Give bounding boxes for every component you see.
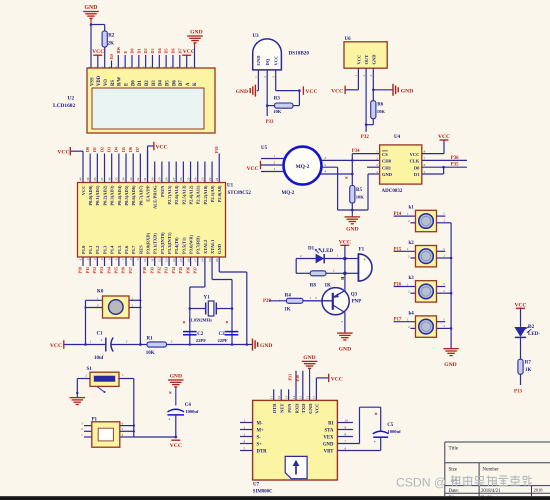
svg-text:33: 33	[129, 177, 133, 181]
svg-text:4: 4	[244, 440, 246, 444]
svg-text:PNP: PNP	[352, 299, 362, 304]
svg-text:P16: P16	[121, 267, 126, 273]
svg-text:5: 5	[107, 258, 111, 260]
svg-text:P30: P30	[142, 267, 147, 273]
svg-text:NET: NET	[280, 404, 285, 413]
svg-text:P2.3(A11): P2.3(A11)	[196, 185, 201, 204]
svg-text:k3: k3	[409, 276, 415, 281]
ground S1	[70, 397, 86, 399]
svg-text:P36: P36	[451, 156, 459, 161]
svg-text:P3.1(TXD): P3.1(TXD)	[153, 233, 158, 254]
svg-text:10uf: 10uf	[94, 356, 104, 361]
svg-text:8: 8	[345, 433, 347, 437]
svg-text:R1: R1	[147, 337, 154, 342]
svg-text:D4: D4	[157, 48, 162, 53]
svg-text:VCC: VCC	[170, 443, 182, 449]
svg-text:3: 3	[93, 258, 97, 260]
svg-text:STC89C52: STC89C52	[228, 191, 252, 196]
svg-text:XTAL2: XTAL2	[203, 239, 208, 254]
svg-text:13: 13	[299, 395, 303, 399]
wire P1 to C4	[134, 436, 176, 438]
svg-text:P0.3(AD3): P0.3(AD3)	[110, 185, 115, 206]
svg-text:P0.0(AD0): P0.0(AD0)	[88, 185, 93, 206]
svg-text:VCC: VCC	[57, 150, 69, 156]
svg-text:VDD: VDD	[97, 75, 102, 86]
svg-text:P2.7(A15): P2.7(A15)	[167, 185, 172, 205]
svg-text:VCC: VCC	[92, 49, 104, 55]
svg-text:EA/VPP: EA/VPP	[145, 185, 150, 202]
svg-text:D1: D1	[92, 147, 97, 152]
svg-text:DQ: DQ	[265, 58, 270, 65]
svg-text:U7: U7	[253, 483, 260, 488]
svg-text:P1.5: P1.5	[117, 245, 122, 254]
svg-text:3: 3	[81, 422, 83, 426]
svg-text:VCC: VCC	[339, 240, 351, 246]
svg-text:C1: C1	[97, 332, 104, 337]
svg-text:U2: U2	[68, 96, 75, 102]
svg-text:P12: P12	[92, 267, 97, 273]
svg-text:1K: 1K	[284, 308, 291, 313]
resistor R6	[371, 101, 376, 119]
svg-text:VCC: VCC	[410, 152, 420, 157]
svg-text:35: 35	[115, 177, 119, 181]
svg-text:VCC: VCC	[274, 56, 279, 66]
svg-text:U5: U5	[261, 146, 268, 151]
svg-text:P3.3(INT1): P3.3(INT1)	[167, 232, 172, 254]
wire to Q3	[344, 273, 346, 290]
svg-text:D6: D6	[172, 80, 177, 86]
svg-text:P33: P33	[266, 120, 275, 125]
svg-text:U4: U4	[394, 135, 401, 140]
svg-text:11: 11	[312, 396, 316, 399]
svg-text:D5: D5	[121, 147, 126, 152]
svg-text:P31: P31	[149, 267, 154, 273]
ground U3	[257, 90, 259, 92]
svg-text:34: 34	[122, 177, 126, 181]
svg-text:GND: GND	[85, 5, 98, 11]
svg-text:VCC: VCC	[183, 49, 195, 55]
svg-text:28: 28	[165, 177, 169, 181]
svg-text:11.0592MHz: 11.0592MHz	[189, 318, 213, 323]
svg-text:P34: P34	[171, 267, 176, 273]
svg-text:39: 39	[86, 177, 90, 181]
svg-text:P2.6(A14): P2.6(A14)	[174, 185, 179, 205]
svg-text:D4: D4	[159, 80, 164, 86]
svg-text:GND: GND	[401, 88, 413, 94]
U6 pins	[357, 68, 359, 90]
svg-text:RES: RES	[138, 245, 143, 254]
svg-text:17: 17	[193, 258, 197, 262]
svg-text:P0.2(AD2): P0.2(AD2)	[102, 185, 107, 206]
svg-text:MQ-2: MQ-2	[282, 191, 295, 196]
svg-text:P0.4(AD4): P0.4(AD4)	[117, 185, 122, 206]
wire D0 P35	[422, 166, 467, 168]
svg-text:GND: GND	[323, 442, 334, 447]
svg-text:37: 37	[100, 177, 104, 181]
wire CH1 stub	[367, 166, 380, 168]
svg-text:OUT: OUT	[364, 55, 369, 65]
svg-text:VCC: VCC	[356, 55, 361, 65]
svg-text:CS: CS	[382, 152, 388, 157]
svg-text:P1.1: P1.1	[88, 245, 93, 254]
svg-text:P3.2(INT0): P3.2(INT0)	[160, 232, 165, 254]
svg-text:P14: P14	[106, 267, 111, 273]
svg-text:P1.3: P1.3	[102, 245, 107, 254]
svg-text:12: 12	[305, 395, 309, 399]
svg-text:VCC: VCC	[315, 404, 320, 414]
svg-text:P32: P32	[157, 267, 162, 273]
wire button bus	[450, 223, 452, 349]
svg-text:12: 12	[158, 258, 162, 262]
svg-text:22: 22	[208, 177, 212, 181]
svg-text:k1: k1	[409, 206, 415, 211]
svg-text:P13: P13	[514, 390, 523, 395]
U7 left pins 1-5	[240, 422, 253, 424]
svg-text:RXD: RXD	[294, 403, 299, 414]
svg-text:E: E	[123, 51, 128, 54]
svg-text:10K: 10K	[146, 351, 155, 356]
svg-text:P1.6: P1.6	[124, 245, 129, 254]
svg-text:D2: D2	[143, 48, 148, 53]
svg-text:8: 8	[129, 258, 133, 260]
svg-text:6: 6	[122, 422, 124, 426]
svg-text:P3.5(T1): P3.5(T1)	[181, 237, 186, 254]
svg-text:D3: D3	[152, 80, 157, 86]
svg-text:38: 38	[93, 177, 97, 181]
svg-text:U3: U3	[253, 34, 260, 39]
wire D1	[422, 173, 444, 175]
wire U7 vbt to C5	[380, 438, 382, 451]
svg-text:P11: P11	[85, 267, 90, 273]
svg-text:P20: P20	[214, 146, 219, 153]
svg-text:DS18B20: DS18B20	[289, 51, 310, 57]
svg-text:GND: GND	[339, 347, 351, 353]
wire U3 vcc	[276, 90, 300, 92]
svg-text:PEN: PEN	[287, 403, 292, 413]
svg-text:GND: GND	[190, 30, 202, 36]
svg-text:P31: P31	[288, 374, 293, 381]
svg-text:5: 5	[122, 427, 124, 431]
svg-text:2: 2	[126, 340, 128, 344]
LCD module U2 body	[87, 68, 215, 133]
svg-text:D0: D0	[130, 48, 135, 53]
svg-text:14: 14	[292, 395, 296, 399]
svg-text:7: 7	[122, 258, 126, 260]
svg-text:P32: P32	[361, 135, 370, 140]
svg-text:R7: R7	[525, 361, 532, 366]
svg-text:6: 6	[345, 447, 347, 451]
svg-text:16: 16	[186, 258, 190, 262]
svg-text:P1.0: P1.0	[81, 245, 86, 254]
svg-text:D2: D2	[145, 80, 150, 86]
svg-text:P15: P15	[114, 267, 119, 273]
U3 pins	[257, 70, 259, 91]
wire CS P34	[351, 154, 353, 161]
svg-text:1K: 1K	[525, 368, 532, 373]
svg-text:P34: P34	[352, 149, 360, 154]
capacitor C2	[183, 331, 197, 333]
power VCC MCU pin31	[153, 142, 155, 150]
svg-text:D2: D2	[528, 325, 535, 330]
svg-text:Y1: Y1	[204, 296, 211, 301]
svg-text:10K: 10K	[356, 195, 365, 200]
svg-text:K: K	[193, 82, 198, 86]
sim card symbol	[285, 456, 307, 478]
svg-text:GND: GND	[170, 374, 182, 380]
power VCC U5	[260, 161, 262, 169]
svg-text:2018: 2018	[534, 488, 544, 493]
svg-text:P10: P10	[78, 267, 83, 273]
svg-text:CH1: CH1	[382, 165, 392, 170]
svg-text:k2: k2	[409, 241, 415, 246]
svg-text:R8: R8	[310, 284, 317, 289]
svg-text:P35: P35	[178, 267, 183, 273]
svg-text:P0.6(AD6): P0.6(AD6)	[131, 185, 136, 206]
svg-text:Number: Number	[482, 468, 499, 473]
wire ADC gnd	[368, 173, 380, 175]
svg-text:P2.1(A9): P2.1(A9)	[210, 185, 215, 202]
svg-text:D7: D7	[135, 147, 140, 152]
svg-text:1: 1	[81, 433, 83, 437]
junction	[84, 343, 87, 346]
resistor R7	[518, 359, 523, 374]
svg-text:VCC: VCC	[81, 186, 86, 196]
svg-text:2: 2	[171, 340, 173, 344]
svg-text:6: 6	[115, 258, 119, 260]
svg-text:GND: GND	[260, 343, 272, 349]
wire pin5 down	[337, 167, 339, 210]
svg-text:S1: S1	[87, 367, 93, 372]
svg-text:GND: GND	[372, 54, 377, 65]
svg-text:15: 15	[284, 395, 288, 399]
svg-text:1: 1	[244, 419, 246, 423]
svg-text:LED: LED	[323, 249, 334, 254]
svg-text:36: 36	[107, 177, 111, 181]
svg-text:C5: C5	[387, 423, 394, 428]
svg-text:R3: R3	[274, 97, 281, 102]
svg-text:k4: k4	[409, 311, 415, 316]
svg-text:ADC0832: ADC0832	[382, 189, 403, 194]
svg-text:D2: D2	[99, 147, 104, 152]
svg-text:21: 21	[215, 177, 219, 181]
wire XTAL2 pin18	[204, 257, 206, 287]
svg-text:R/W: R/W	[118, 76, 123, 86]
svg-text:5: 5	[244, 447, 246, 451]
svg-text:Title: Title	[449, 446, 459, 452]
svg-text:CH0: CH0	[382, 159, 392, 164]
svg-text:D3: D3	[106, 147, 111, 152]
svg-text:D5: D5	[165, 80, 170, 86]
svg-text:LED-: LED-	[528, 332, 540, 337]
svg-text:22PF: 22PF	[218, 338, 228, 343]
junction RES node	[139, 343, 142, 346]
svg-text:1: 1	[90, 340, 92, 344]
svg-text:P1.4: P1.4	[110, 245, 115, 254]
svg-text:29: 29	[158, 177, 162, 181]
svg-text:4: 4	[100, 258, 104, 260]
svg-text:VCC: VCC	[331, 88, 343, 94]
bottom bar	[0, 496, 550, 500]
svg-text:R2: R2	[108, 34, 115, 39]
svg-text:GND: GND	[217, 243, 222, 254]
wire	[104, 47, 106, 68]
svg-text:P13: P13	[99, 267, 104, 273]
svg-text:23: 23	[201, 177, 205, 181]
svg-text:2: 2	[86, 258, 90, 260]
svg-text:M-: M-	[257, 421, 264, 426]
svg-text:P0.5(AD5): P0.5(AD5)	[124, 185, 129, 206]
svg-text:GND: GND	[256, 55, 261, 66]
svg-text:VCC: VCC	[331, 376, 343, 382]
svg-text:D1: D1	[414, 172, 420, 177]
svg-text:VCC: VCC	[246, 166, 258, 172]
svg-text:19: 19	[208, 258, 212, 262]
power VCC U3	[302, 86, 304, 94]
title block frame	[445, 441, 550, 443]
svg-text:M+: M+	[257, 428, 265, 433]
svg-text:14: 14	[172, 258, 176, 262]
svg-text:DTR: DTR	[272, 403, 277, 413]
svg-text:9: 9	[345, 426, 347, 430]
svg-text:11: 11	[150, 258, 154, 262]
svg-text:P30: P30	[295, 375, 300, 382]
svg-text:S+: S+	[257, 442, 263, 447]
ground buttons	[443, 348, 459, 350]
svg-text:GND: GND	[444, 362, 456, 368]
svg-text:1: 1	[309, 296, 311, 300]
svg-text:2: 2	[85, 374, 87, 378]
svg-text:ALE/PROG: ALE/PROG	[153, 185, 158, 209]
svg-text:C3: C3	[219, 332, 226, 337]
svg-text:D7: D7	[179, 80, 184, 86]
svg-text:10: 10	[345, 419, 349, 423]
resistor R5	[350, 186, 355, 204]
svg-text:VO: VO	[104, 79, 109, 86]
wire U7 gnd to C5	[359, 407, 361, 443]
svg-text:P2.0(A8): P2.0(A8)	[217, 185, 222, 202]
svg-text:LCD1602: LCD1602	[53, 103, 75, 109]
svg-text:D1: D1	[138, 80, 143, 86]
svg-text:GND: GND	[308, 403, 313, 414]
svg-text:32: 32	[136, 177, 140, 181]
svg-text:22PF: 22PF	[196, 338, 206, 343]
svg-text:DTR: DTR	[257, 449, 268, 454]
resistor R8	[296, 272, 310, 274]
svg-text:PSEN: PSEN	[160, 185, 165, 197]
svg-text:10K: 10K	[273, 109, 282, 114]
wire	[90, 25, 92, 69]
svg-text:2: 2	[333, 269, 335, 273]
svg-text:P17: P17	[128, 267, 133, 273]
svg-text:MQ-2: MQ-2	[296, 164, 310, 170]
resistor R2	[102, 31, 107, 47]
svg-text:P1.2: P1.2	[95, 245, 100, 254]
svg-text:C4: C4	[185, 403, 192, 408]
wire GND pin20	[218, 257, 220, 272]
power VCC below C4	[171, 439, 180, 441]
svg-text:1: 1	[79, 258, 83, 260]
svg-text:GND: GND	[346, 227, 358, 233]
wire RES pin9	[139, 257, 141, 345]
svg-text:1: 1	[122, 373, 124, 377]
svg-text:P2.2(A10): P2.2(A10)	[203, 185, 208, 205]
svg-text:10K: 10K	[377, 109, 386, 114]
svg-text:K0: K0	[97, 290, 104, 295]
svg-text:1000uf: 1000uf	[185, 409, 199, 414]
svg-text:D6: D6	[171, 48, 176, 53]
svg-text:VCC: VCC	[156, 145, 168, 151]
U7 right pins 10-6	[337, 422, 353, 424]
svg-text:2: 2	[81, 427, 83, 431]
svg-text:STA: STA	[325, 428, 335, 433]
module U7 body	[253, 400, 338, 480]
svg-text:D0: D0	[131, 80, 136, 86]
svg-text:RW: RW	[116, 46, 121, 54]
svg-text:D0: D0	[414, 165, 420, 170]
junctions buzzer	[344, 259, 346, 274]
svg-text:VSS: VSS	[90, 77, 95, 86]
svg-text:SIM800C: SIM800C	[253, 489, 273, 494]
svg-text:P3.6(WR): P3.6(WR)	[188, 234, 193, 254]
svg-text:P3.7(RD): P3.7(RD)	[196, 236, 201, 254]
svg-text:+: +	[363, 257, 366, 262]
svg-text:P0.1(AD1): P0.1(AD1)	[95, 185, 100, 206]
wire rail to gnd	[190, 344, 252, 346]
svg-text:RS: RS	[111, 80, 116, 86]
svg-text:P35: P35	[451, 163, 459, 168]
wire S1 to P1	[133, 379, 135, 438]
wire reset rail	[64, 344, 106, 346]
svg-text:D1: D1	[308, 247, 315, 252]
svg-text:VCC: VCC	[50, 343, 62, 349]
svg-text:P33: P33	[164, 267, 169, 273]
svg-text:7: 7	[345, 440, 347, 444]
svg-text:R6: R6	[377, 103, 384, 108]
wire CH0	[351, 159, 354, 162]
svg-text:2018/4/21: 2018/4/21	[481, 489, 501, 494]
svg-text:P0.7(AD7): P0.7(AD7)	[138, 185, 143, 206]
svg-text:25: 25	[186, 177, 190, 181]
MCU U1 body	[78, 183, 226, 258]
svg-text:GND: GND	[236, 89, 248, 95]
svg-text:9: 9	[136, 258, 140, 260]
svg-text:2: 2	[315, 296, 317, 300]
svg-text:26: 26	[179, 177, 183, 181]
svg-text:CLK: CLK	[410, 159, 420, 164]
wire CLK P36	[422, 159, 467, 161]
svg-text:U1: U1	[227, 184, 234, 189]
svg-text:16: 16	[277, 395, 281, 399]
svg-text:E: E	[124, 83, 129, 86]
svg-text:27: 27	[172, 177, 176, 181]
svg-text:24: 24	[193, 177, 197, 181]
svg-text:VCC: VCC	[305, 89, 317, 95]
wire R5 chain	[351, 173, 354, 176]
svg-text:S-: S-	[257, 435, 262, 440]
svg-text:R5: R5	[356, 188, 363, 193]
svg-text:GND: GND	[382, 172, 393, 177]
U5 left pins	[261, 158, 285, 160]
svg-text:30: 30	[150, 177, 154, 181]
svg-text:VCC: VCC	[438, 134, 450, 140]
svg-text:P36: P36	[185, 267, 190, 273]
svg-text:2: 2	[300, 254, 302, 258]
svg-text:D5: D5	[164, 48, 169, 53]
svg-text:17: 17	[270, 395, 274, 399]
svg-text:D4: D4	[114, 147, 119, 152]
wire D1 left	[295, 259, 297, 274]
power VCC U6	[346, 89, 359, 91]
